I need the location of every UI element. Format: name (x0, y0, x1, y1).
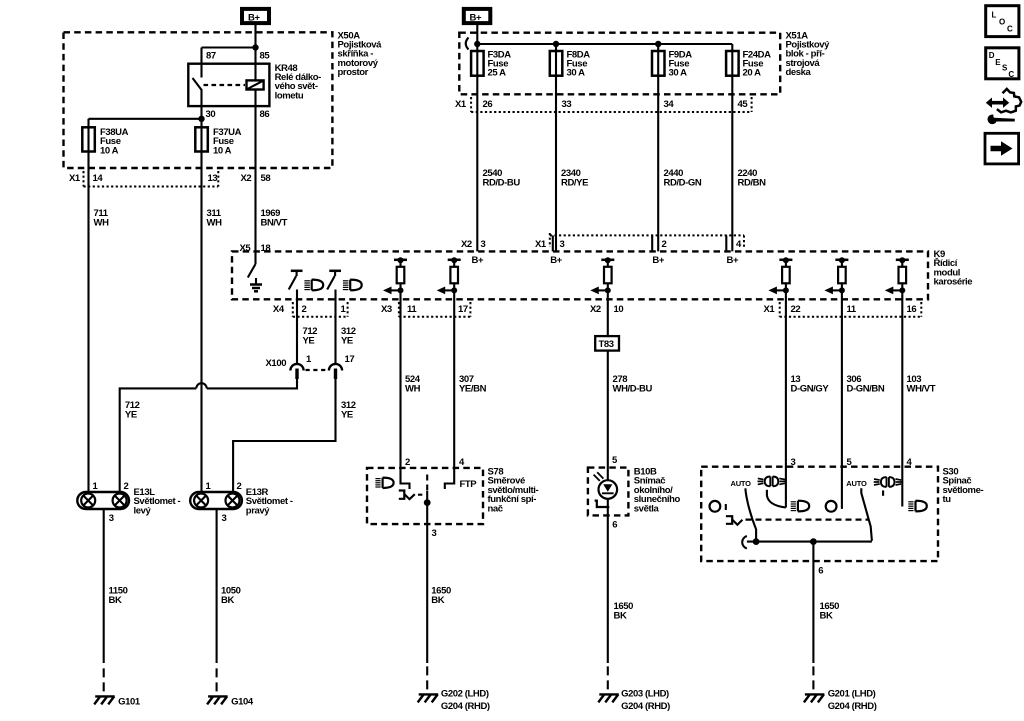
svg-text:BK: BK (109, 595, 122, 606)
svg-text:14: 14 (93, 173, 104, 184)
svg-text:45: 45 (738, 99, 749, 110)
svg-text:B+: B+ (652, 255, 664, 266)
svg-text:X1: X1 (535, 239, 547, 250)
svg-text:G204 (RHD): G204 (RHD) (441, 701, 490, 712)
svg-text:18: 18 (261, 243, 271, 254)
svg-text:AUTO: AUTO (731, 479, 752, 488)
svg-text:17: 17 (345, 354, 355, 365)
svg-text:G204 (RHD): G204 (RHD) (828, 701, 877, 712)
svg-text:30: 30 (206, 109, 216, 120)
svg-text:G104: G104 (231, 697, 254, 708)
svg-text:X3: X3 (381, 304, 392, 315)
svg-text:YE: YE (303, 336, 315, 347)
svg-text:2: 2 (302, 304, 307, 315)
svg-text:O: O (999, 18, 1005, 27)
svg-text:X2: X2 (590, 304, 601, 315)
svg-text:86: 86 (260, 109, 270, 120)
svg-text:3: 3 (432, 528, 437, 539)
svg-text:B+: B+ (471, 255, 483, 266)
svg-text:C: C (1007, 25, 1013, 34)
svg-text:RD/D-BU: RD/D-BU (483, 178, 521, 189)
svg-text:30 A: 30 A (669, 68, 688, 79)
svg-text:WH/VT: WH/VT (907, 384, 936, 395)
svg-text:RD/YE: RD/YE (561, 178, 588, 189)
svg-text:BK: BK (820, 611, 833, 622)
svg-text:FTP: FTP (460, 479, 478, 490)
svg-text:YE: YE (341, 410, 353, 421)
svg-text:BK: BK (221, 595, 234, 606)
svg-text:10: 10 (614, 304, 624, 315)
svg-text:G101: G101 (118, 697, 141, 708)
svg-text:WH/D-BU: WH/D-BU (613, 384, 653, 395)
svg-text:26: 26 (483, 99, 493, 110)
svg-text:58: 58 (261, 173, 271, 184)
svg-text:G201 (LHD): G201 (LHD) (828, 689, 876, 700)
svg-text:AUTO: AUTO (846, 479, 867, 488)
svg-text:C: C (1008, 70, 1014, 79)
svg-text:3: 3 (481, 239, 486, 250)
svg-text:BK: BK (431, 595, 444, 606)
svg-text:levý: levý (134, 505, 152, 516)
svg-text:3: 3 (109, 513, 114, 524)
svg-text:RD/BN: RD/BN (738, 178, 767, 189)
svg-text:33: 33 (562, 99, 572, 110)
svg-text:2: 2 (405, 457, 410, 468)
svg-text:3: 3 (560, 239, 565, 250)
svg-text:2: 2 (124, 481, 129, 492)
svg-text:6: 6 (818, 566, 823, 577)
svg-text:D-GN/BN: D-GN/BN (847, 384, 885, 395)
svg-text:X2: X2 (241, 173, 252, 184)
svg-text:X1: X1 (764, 304, 776, 315)
svg-text:D-GN/GY: D-GN/GY (791, 384, 830, 395)
svg-text:G202 (LHD): G202 (LHD) (441, 689, 489, 700)
svg-text:pravý: pravý (246, 505, 270, 516)
svg-text:deska: deska (786, 67, 812, 78)
svg-text:X2: X2 (461, 239, 472, 250)
svg-text:L: L (992, 11, 997, 20)
svg-text:RD/D-GN: RD/D-GN (664, 178, 702, 189)
svg-text:17: 17 (458, 304, 468, 315)
svg-text:11: 11 (847, 304, 857, 315)
svg-text:X1: X1 (69, 173, 81, 184)
svg-text:X100: X100 (266, 358, 287, 369)
svg-text:nač: nač (488, 503, 503, 514)
svg-text:2: 2 (237, 481, 242, 492)
svg-text:3: 3 (222, 513, 227, 524)
svg-text:X1: X1 (455, 99, 467, 110)
svg-text:karosérie: karosérie (934, 277, 973, 288)
svg-text:16: 16 (907, 304, 917, 315)
svg-text:10 A: 10 A (213, 145, 232, 156)
svg-text:B+: B+ (726, 255, 738, 266)
svg-text:87: 87 (206, 51, 216, 62)
svg-text:WH: WH (405, 384, 421, 395)
svg-text:YE/BN: YE/BN (459, 384, 487, 395)
svg-text:X5: X5 (240, 243, 252, 254)
svg-text:tu: tu (943, 494, 952, 505)
svg-text:B+: B+ (550, 255, 562, 266)
svg-text:WH: WH (207, 218, 223, 229)
svg-text:B+: B+ (248, 13, 260, 24)
svg-text:X4: X4 (273, 304, 285, 315)
svg-text:22: 22 (791, 304, 801, 315)
svg-text:D: D (989, 51, 995, 60)
svg-text:BN/VT: BN/VT (261, 218, 288, 229)
svg-text:85: 85 (260, 51, 271, 62)
svg-text:G203 (LHD): G203 (LHD) (621, 689, 669, 700)
svg-text:30 A: 30 A (567, 68, 586, 79)
svg-text:G204 (RHD): G204 (RHD) (621, 701, 670, 712)
svg-text:2: 2 (662, 239, 667, 250)
svg-text:BK: BK (614, 611, 627, 622)
svg-text:11: 11 (407, 304, 417, 315)
svg-text:WH: WH (94, 218, 110, 229)
svg-text:YE: YE (341, 336, 353, 347)
svg-text:13: 13 (208, 173, 218, 184)
svg-text:YE: YE (125, 410, 137, 421)
svg-text:10 A: 10 A (100, 145, 119, 156)
svg-text:lometu: lometu (275, 90, 304, 101)
svg-text:prostor: prostor (338, 67, 369, 78)
svg-text:světla: světla (634, 503, 660, 514)
svg-text:T83: T83 (599, 339, 614, 350)
svg-text:34: 34 (664, 99, 675, 110)
svg-text:20 A: 20 A (743, 68, 762, 79)
svg-text:B+: B+ (470, 13, 482, 24)
svg-text:6: 6 (612, 520, 617, 531)
svg-text:25 A: 25 A (488, 68, 507, 79)
